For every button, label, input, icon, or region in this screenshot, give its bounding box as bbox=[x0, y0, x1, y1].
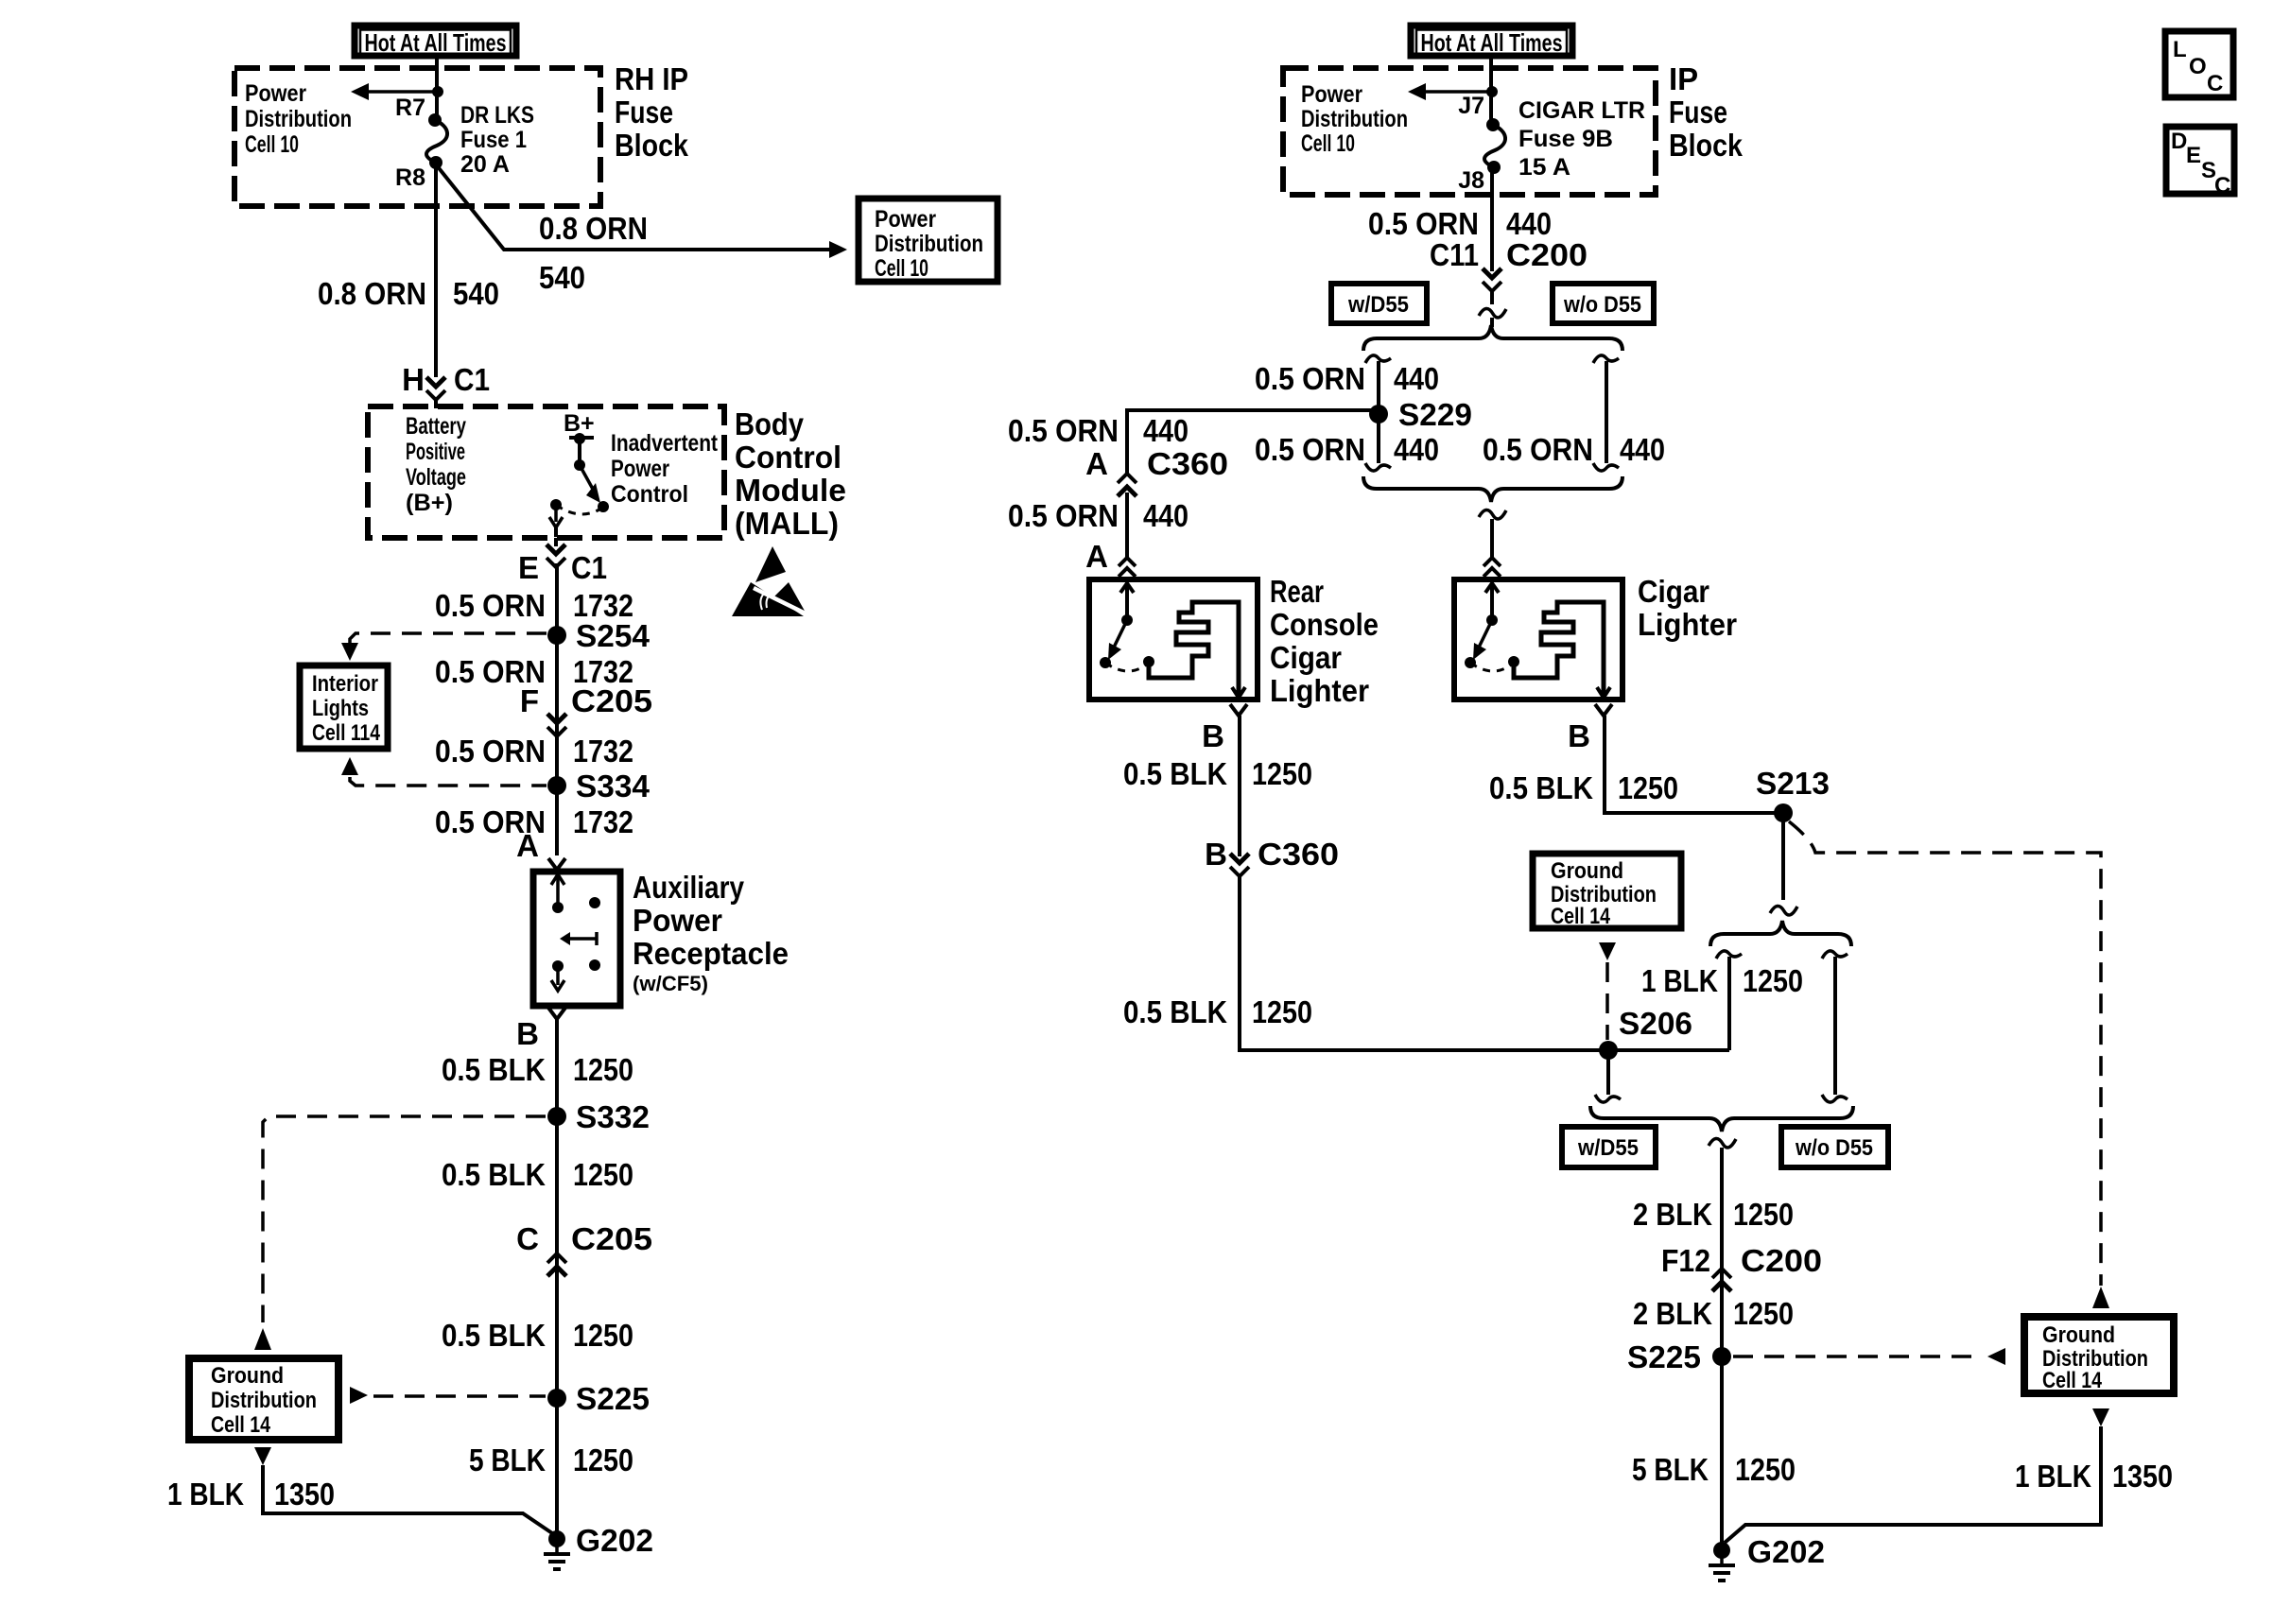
wire: battery feed from Hot At All Times bbox=[435, 58, 439, 118]
svg-text:(MALL): (MALL) bbox=[735, 506, 839, 541]
splice S225 (right) bbox=[1627, 1339, 1731, 1374]
dashed reference S225 to ground distribution (right) bbox=[1733, 1348, 2005, 1365]
svg-text:540: 540 bbox=[453, 276, 499, 311]
wire label 0.5 ORN 440 (lighter feed) bbox=[1008, 498, 1189, 533]
svg-text:1250: 1250 bbox=[1733, 1197, 1794, 1232]
svg-text:C205: C205 bbox=[571, 683, 652, 718]
svg-text:A: A bbox=[516, 828, 539, 863]
splice S225 (left) bbox=[547, 1381, 650, 1416]
wire label 0.5 ORN 440 bbox=[1368, 206, 1552, 241]
connector C205 pin F bbox=[520, 683, 652, 736]
ground G202 (left) bbox=[544, 1523, 653, 1569]
wire label 0.8 ORN 540 (main) bbox=[318, 276, 499, 311]
connector C360 pin B bbox=[1205, 837, 1339, 876]
fuse value label DR LKS Fuse 1 20 A bbox=[460, 102, 534, 178]
svg-text:E: E bbox=[518, 550, 539, 585]
svg-text:G202: G202 bbox=[576, 1523, 653, 1558]
svg-text:0.5 ORN: 0.5 ORN bbox=[1368, 206, 1479, 241]
svg-text:Cell 14: Cell 14 bbox=[211, 1412, 271, 1438]
Body Control Module dashed outline bbox=[368, 406, 724, 538]
dashed reference S213 to ground distribution (right) bbox=[1789, 821, 2109, 1308]
wire 1732 segment 1 bbox=[555, 563, 559, 855]
pin A of rear console lighter bbox=[1085, 539, 1136, 577]
pin J7 bbox=[1458, 93, 1484, 119]
svg-text:1 BLK: 1 BLK bbox=[167, 1477, 244, 1512]
svg-text:1 BLK: 1 BLK bbox=[2015, 1459, 2091, 1494]
svg-text:O: O bbox=[2189, 54, 2207, 79]
RH IP Fuse Block dashed outline bbox=[234, 68, 600, 206]
wire 1 BLK 1350 from ground distribution bbox=[254, 1447, 555, 1535]
arrow to Power Distribution Cell 10 (left) bbox=[351, 83, 437, 100]
pin R7 bbox=[395, 95, 425, 121]
svg-text:F12: F12 bbox=[1661, 1243, 1710, 1278]
svg-text:1732: 1732 bbox=[573, 804, 633, 839]
svg-text:1250: 1250 bbox=[1735, 1452, 1796, 1487]
svg-text:Control: Control bbox=[611, 481, 688, 508]
svg-text:S225: S225 bbox=[576, 1381, 650, 1416]
svg-text:C11: C11 bbox=[1430, 237, 1479, 272]
svg-text:RH IP: RH IP bbox=[615, 61, 688, 96]
legend tab LOC bbox=[2165, 31, 2233, 97]
svg-text:0.5 BLK: 0.5 BLK bbox=[1123, 994, 1227, 1029]
svg-text:0.5 ORN: 0.5 ORN bbox=[435, 734, 546, 769]
wire into BCM bbox=[434, 400, 438, 408]
svg-text:Rear: Rear bbox=[1270, 574, 1324, 609]
option brace (top rejoin) bbox=[1363, 476, 1622, 502]
svg-text:F: F bbox=[520, 683, 539, 718]
svg-text:C1: C1 bbox=[571, 550, 607, 585]
svg-text:Fuse: Fuse bbox=[1669, 95, 1727, 130]
wire below rejoin with break bbox=[1709, 1138, 1736, 1550]
svg-text:Cell 10: Cell 10 bbox=[1301, 130, 1355, 157]
svg-text:B: B bbox=[1568, 718, 1590, 753]
svg-text:0.5 ORN: 0.5 ORN bbox=[1255, 432, 1365, 467]
fuse value label CIGAR LTR Fuse 9B 15 A bbox=[1518, 97, 1645, 181]
pin A of receptacle bbox=[516, 828, 565, 870]
wire below S206 with break bbox=[1595, 1050, 1621, 1102]
svg-text:1350: 1350 bbox=[274, 1477, 335, 1512]
svg-text:440: 440 bbox=[1394, 361, 1439, 396]
connector C200 pin F12 bbox=[1661, 1243, 1822, 1291]
svg-text:0.8 ORN: 0.8 ORN bbox=[539, 211, 648, 246]
svg-text:Power: Power bbox=[1301, 81, 1362, 108]
svg-text:Hot At All Times: Hot At All Times bbox=[1421, 28, 1563, 57]
wire to cigar lighter with break bbox=[1479, 510, 1506, 558]
svg-text:440: 440 bbox=[1143, 413, 1189, 448]
svg-text:Lighter: Lighter bbox=[1270, 673, 1369, 708]
svg-text:S225: S225 bbox=[1627, 1339, 1701, 1374]
svg-text:Hot At All Times: Hot At All Times bbox=[365, 28, 507, 57]
IP Fuse Block dashed outline bbox=[1283, 68, 1656, 195]
switch: inadvertent power control bbox=[550, 439, 609, 514]
svg-text:Distribution: Distribution bbox=[1301, 106, 1408, 132]
pin A of cigar lighter bbox=[1484, 558, 1501, 577]
svg-text:C200: C200 bbox=[1741, 1243, 1822, 1278]
pin B of receptacle bbox=[516, 1008, 565, 1051]
svg-text:1250: 1250 bbox=[1252, 756, 1312, 791]
arrow to Power Distribution Cell 10 (right block) bbox=[1408, 83, 1491, 100]
wire label 0.5 ORN 1732 (3) bbox=[435, 734, 633, 769]
pin B of cigar lighter bbox=[1568, 704, 1612, 753]
svg-text:1250: 1250 bbox=[1743, 963, 1803, 998]
svg-text:Body: Body bbox=[735, 406, 805, 441]
svg-text:Ground: Ground bbox=[1551, 858, 1623, 884]
svg-text:2 BLK: 2 BLK bbox=[1633, 1296, 1712, 1331]
svg-text:w/D55: w/D55 bbox=[1347, 292, 1409, 318]
svg-text:440: 440 bbox=[1620, 432, 1665, 467]
svg-text:0.5 BLK: 0.5 BLK bbox=[1489, 770, 1593, 805]
svg-text:1250: 1250 bbox=[1252, 994, 1312, 1029]
switch output with arrow bbox=[549, 505, 563, 537]
component: Auxiliary Power Receptacle bbox=[533, 872, 620, 1006]
svg-text:A: A bbox=[1085, 446, 1108, 481]
dashed reference S334 to Interior Lights bbox=[341, 757, 547, 786]
svg-text:Battery: Battery bbox=[406, 413, 466, 440]
wire label 2 BLK 1250 (2) bbox=[1633, 1296, 1794, 1331]
svg-text:440: 440 bbox=[1143, 498, 1189, 533]
svg-text:2 BLK: 2 BLK bbox=[1633, 1197, 1712, 1232]
svg-text:S206: S206 bbox=[1619, 1006, 1692, 1041]
svg-text:Control: Control bbox=[735, 440, 842, 475]
svg-text:440: 440 bbox=[1506, 206, 1552, 241]
svg-text:J7: J7 bbox=[1458, 93, 1484, 119]
svg-text:D: D bbox=[2171, 129, 2187, 154]
option tag w/D55 (top) bbox=[1331, 284, 1427, 323]
connector C1 pin E bbox=[518, 538, 607, 585]
fuse DR LKS Fuse 1 20 A bbox=[426, 113, 447, 169]
wire 1250 from rear lighter bbox=[1238, 716, 1241, 856]
svg-text:0.5 ORN: 0.5 ORN bbox=[1255, 361, 1365, 396]
svg-text:Module: Module bbox=[735, 473, 846, 508]
svg-text:Fuse: Fuse bbox=[615, 95, 673, 130]
option tag w/D55 (bottom) bbox=[1562, 1127, 1656, 1167]
svg-text:Cell 14: Cell 14 bbox=[1551, 904, 1611, 929]
wire 1250 from cigar lighter to S213 bbox=[1605, 716, 1783, 813]
svg-text:CIGAR LTR: CIGAR LTR bbox=[1518, 97, 1645, 124]
wire circuit 440 below fuse block bbox=[1490, 167, 1494, 271]
branch wire (w/o D55 path) bbox=[1822, 951, 1848, 1102]
svg-text:Block: Block bbox=[1669, 128, 1744, 163]
option branch w/o D55 wire 440 bbox=[1593, 355, 1619, 471]
svg-text:0.5 ORN: 0.5 ORN bbox=[1008, 498, 1119, 533]
wire: 0.8 ORN 540 branch to power distribution bbox=[436, 164, 847, 258]
svg-text:0.5 ORN: 0.5 ORN bbox=[1483, 432, 1593, 467]
svg-text:1250: 1250 bbox=[573, 1443, 633, 1477]
svg-text:Inadvertent: Inadvertent bbox=[611, 430, 719, 457]
option tag w/o D55 (top) bbox=[1553, 284, 1654, 323]
svg-text:0.5 BLK: 0.5 BLK bbox=[442, 1052, 546, 1087]
junction at R7 feed bbox=[432, 86, 443, 97]
svg-text:C360: C360 bbox=[1147, 446, 1228, 481]
component: Rear Console Cigar Lighter bbox=[1089, 579, 1258, 700]
wire 1250 down to S206 bbox=[1240, 876, 1729, 1050]
svg-text:Cell 14: Cell 14 bbox=[2042, 1368, 2103, 1393]
pin B of rear console lighter bbox=[1202, 704, 1247, 753]
option brace (top split) bbox=[1363, 325, 1622, 351]
RH IP Fuse Block title bbox=[615, 61, 689, 163]
svg-text:S334: S334 bbox=[576, 769, 651, 803]
svg-text:1250: 1250 bbox=[573, 1052, 633, 1087]
svg-text:0.8 ORN: 0.8 ORN bbox=[318, 276, 426, 311]
svg-text:Power: Power bbox=[875, 206, 936, 233]
svg-text:Lights: Lights bbox=[312, 696, 369, 721]
wire 1250 from receptacle bbox=[555, 1019, 559, 1539]
svg-text:C: C bbox=[2207, 71, 2223, 96]
node B+ bbox=[564, 410, 595, 444]
wire label 440 (w/D55 branch) bbox=[1255, 361, 1439, 396]
svg-text:Power: Power bbox=[245, 80, 306, 107]
svg-text:DR LKS: DR LKS bbox=[460, 102, 534, 129]
wire label 0.5 ORN 1732 (2) bbox=[435, 654, 633, 689]
option tag w/o D55 (bottom) bbox=[1781, 1127, 1888, 1167]
ESD static sensitive symbol bbox=[732, 546, 811, 616]
svg-text:Cell 114: Cell 114 bbox=[312, 720, 381, 746]
dashed reference S254 to Interior Lights bbox=[341, 633, 547, 661]
svg-text:B: B bbox=[516, 1016, 539, 1051]
fuse CIGAR LTR Fuse 9B 15 A bbox=[1484, 118, 1505, 174]
svg-text:C: C bbox=[2214, 173, 2230, 199]
svg-text:20 A: 20 A bbox=[460, 151, 510, 178]
receptacle title bbox=[633, 870, 789, 995]
svg-text:Lighter: Lighter bbox=[1638, 607, 1737, 642]
svg-text:C1: C1 bbox=[454, 362, 490, 397]
wire label 0.5 ORN 440 (to C360) bbox=[1008, 413, 1189, 448]
svg-text:(w/CF5): (w/CF5) bbox=[633, 972, 708, 995]
svg-text:Distribution: Distribution bbox=[211, 1388, 317, 1413]
wire label 0.5 BLK 1250 (2) bbox=[442, 1157, 633, 1192]
connector C1 pin H bbox=[402, 362, 490, 400]
svg-text:Cigar: Cigar bbox=[1270, 640, 1342, 675]
option brace (ground split) bbox=[1710, 921, 1851, 946]
wire label 0.5 ORN 440 (below S229) bbox=[1255, 432, 1439, 467]
option branch w/D55 wire 440 bbox=[1365, 355, 1391, 471]
svg-text:15 A: 15 A bbox=[1518, 154, 1570, 181]
wire label 5 BLK 1250 (right) bbox=[1632, 1452, 1796, 1487]
junction at J7 feed bbox=[1486, 86, 1498, 97]
svg-text:B: B bbox=[1202, 718, 1224, 753]
dashed reference S332 to Ground Distribution bbox=[254, 1116, 546, 1350]
svg-text:Distribution: Distribution bbox=[875, 231, 983, 257]
svg-text:Voltage: Voltage bbox=[406, 464, 466, 491]
svg-text:H: H bbox=[402, 362, 425, 397]
svg-text:Receptacle: Receptacle bbox=[633, 936, 789, 971]
wire label 0.5 ORN 1732 (1) bbox=[435, 588, 633, 623]
svg-text:Fuse 9B: Fuse 9B bbox=[1518, 126, 1613, 152]
svg-text:Power: Power bbox=[633, 903, 722, 938]
cigar lighter title bbox=[1638, 574, 1737, 642]
svg-text:S254: S254 bbox=[576, 618, 651, 653]
pin J8 bbox=[1458, 167, 1484, 194]
wire: circuit 540 to BCM bbox=[434, 163, 438, 377]
svg-text:1732: 1732 bbox=[573, 734, 633, 769]
svg-text:Cell 10: Cell 10 bbox=[875, 255, 928, 282]
component: Cigar Lighter bbox=[1454, 579, 1622, 700]
wire label 1 BLK 1350 bbox=[167, 1477, 335, 1512]
legend tab DESC bbox=[2166, 127, 2234, 199]
connector C360 pin A bbox=[1085, 446, 1228, 496]
svg-text:w/D55: w/D55 bbox=[1577, 1135, 1639, 1161]
svg-text:B: B bbox=[1205, 837, 1227, 872]
pin R8 bbox=[395, 164, 425, 191]
svg-text:Auxiliary: Auxiliary bbox=[633, 870, 745, 905]
dashed reference ground distribution to S206 bbox=[1599, 942, 1616, 1040]
svg-text:w/o D55: w/o D55 bbox=[1563, 292, 1641, 318]
svg-text:Interior: Interior bbox=[312, 671, 378, 697]
wire: battery feed (right) bbox=[1489, 58, 1493, 123]
rear console lighter title bbox=[1270, 574, 1379, 708]
wire label 2 BLK 1250 (1) bbox=[1633, 1197, 1794, 1232]
svg-text:1250: 1250 bbox=[1618, 770, 1678, 805]
svg-text:Ground: Ground bbox=[2042, 1322, 2115, 1348]
wire label 0.5 ORN 1732 (4) bbox=[435, 804, 633, 839]
svg-text:Power: Power bbox=[611, 456, 669, 482]
splice S206 bbox=[1599, 1006, 1692, 1060]
svg-text:Positive: Positive bbox=[406, 439, 465, 465]
node: Hot At All Times (left) bbox=[355, 26, 516, 57]
node: Interior Lights Cell 114 box bbox=[300, 665, 388, 749]
svg-text:1250: 1250 bbox=[573, 1318, 633, 1353]
svg-text:S229: S229 bbox=[1398, 397, 1472, 432]
branch wire 1 BLK 1250 (w/D55 path) bbox=[1716, 951, 1742, 1050]
svg-text:S213: S213 bbox=[1756, 766, 1830, 801]
svg-text:0.5 BLK: 0.5 BLK bbox=[1123, 756, 1227, 791]
svg-text:G202: G202 bbox=[1747, 1534, 1825, 1569]
svg-text:B+: B+ bbox=[564, 410, 595, 437]
svg-text:5 BLK: 5 BLK bbox=[469, 1443, 546, 1477]
svg-text:1250: 1250 bbox=[1733, 1296, 1794, 1331]
node: Ground Distribution Cell 14 (left) bbox=[189, 1358, 338, 1440]
splice S213 bbox=[1756, 766, 1830, 822]
node: Ground Distribution Cell 14 (right) bbox=[2024, 1317, 2174, 1393]
svg-text:J8: J8 bbox=[1458, 167, 1484, 194]
dashed reference Ground Distribution to S225 bbox=[350, 1387, 546, 1404]
splice S332 bbox=[547, 1099, 650, 1134]
wire label 0.5 ORN 440 (w/o D55 branch) bbox=[1483, 432, 1665, 467]
svg-text:C: C bbox=[516, 1221, 539, 1256]
break in wire (options below) bbox=[1479, 291, 1506, 327]
svg-text:S332: S332 bbox=[576, 1099, 650, 1134]
svg-text:1 BLK: 1 BLK bbox=[1641, 963, 1718, 998]
svg-text:R7: R7 bbox=[395, 95, 425, 121]
svg-text:IP: IP bbox=[1669, 61, 1698, 96]
svg-text:Ground: Ground bbox=[211, 1363, 284, 1389]
svg-text:E: E bbox=[2186, 143, 2201, 168]
wire from S229 to rear console lighter bbox=[1127, 410, 1371, 475]
splice S334 bbox=[547, 769, 651, 803]
svg-text:0.5 BLK: 0.5 BLK bbox=[442, 1157, 546, 1192]
svg-text:Cell 10: Cell 10 bbox=[245, 131, 299, 158]
label: Inadvertent Power Control bbox=[611, 430, 719, 508]
node: Ground Distribution Cell 14 (middle) bbox=[1533, 854, 1681, 929]
wire label 0.8 ORN 540 (branch) bbox=[539, 211, 648, 295]
wire 1 BLK 1350 (right) to ground bbox=[1725, 1408, 2109, 1543]
splice S229 bbox=[1369, 397, 1472, 432]
svg-text:Block: Block bbox=[615, 128, 689, 163]
svg-text:0.5 ORN: 0.5 ORN bbox=[1008, 413, 1119, 448]
connector C200 pin C11 bbox=[1430, 237, 1588, 291]
svg-text:w/o D55: w/o D55 bbox=[1795, 1135, 1873, 1161]
svg-text:Console: Console bbox=[1270, 607, 1379, 642]
wire label 0.5 BLK 1250 (3) bbox=[442, 1318, 633, 1353]
svg-text:540: 540 bbox=[539, 260, 585, 295]
svg-text:1250: 1250 bbox=[573, 1157, 633, 1192]
wire label 0.5 BLK 1250 (rear lighter) bbox=[1123, 756, 1312, 791]
IP Fuse Block title bbox=[1669, 61, 1744, 163]
svg-text:C200: C200 bbox=[1506, 237, 1588, 272]
wire from S213 down with break bbox=[1770, 813, 1797, 915]
svg-text:(B+): (B+) bbox=[406, 490, 453, 516]
label: Power Distribution Cell 10 (in IP fuse block) bbox=[1301, 81, 1408, 157]
wire 440 to lighter pin A bbox=[1125, 492, 1129, 558]
svg-text:0.5 ORN: 0.5 ORN bbox=[435, 588, 546, 623]
svg-text:5 BLK: 5 BLK bbox=[1632, 1452, 1709, 1487]
wire label 1 BLK 1250 bbox=[1641, 963, 1803, 998]
wire label 0.5 BLK 1250 (to S206) bbox=[1123, 994, 1312, 1029]
wire label 5 BLK 1250 bbox=[469, 1443, 633, 1477]
BCM title Body Control Module (MALL) bbox=[735, 406, 846, 541]
wire label 0.5 BLK 1250 (cigar lighter) bbox=[1489, 770, 1678, 805]
ground G202 (right) bbox=[1709, 1534, 1825, 1581]
wire label 1 BLK 1350 (right) bbox=[2015, 1459, 2173, 1494]
option brace (ground rejoin) bbox=[1590, 1106, 1853, 1132]
svg-text:Fuse 1: Fuse 1 bbox=[460, 127, 527, 153]
connector C205 pin C bbox=[516, 1221, 652, 1276]
svg-text:Distribution: Distribution bbox=[245, 106, 352, 132]
label: Power Distribution Cell 10 (in RH IP fuse block) bbox=[245, 80, 352, 158]
splice S254 bbox=[547, 618, 651, 653]
svg-text:1350: 1350 bbox=[2112, 1459, 2173, 1494]
svg-text:C205: C205 bbox=[571, 1221, 652, 1256]
node: Power Distribution Cell 10 (right box) bbox=[859, 199, 998, 282]
svg-text:440: 440 bbox=[1394, 432, 1439, 467]
svg-text:R8: R8 bbox=[395, 164, 425, 191]
wire label 0.5 BLK 1250 (1) bbox=[442, 1052, 633, 1087]
label: Battery Positive Voltage (B+) bbox=[406, 413, 466, 516]
svg-text:Cigar: Cigar bbox=[1638, 574, 1709, 609]
svg-text:A: A bbox=[1085, 539, 1108, 574]
svg-text:0.5 BLK: 0.5 BLK bbox=[442, 1318, 546, 1353]
svg-text:C360: C360 bbox=[1258, 837, 1339, 872]
node: Hot At All Times (right) bbox=[1411, 26, 1572, 57]
svg-text:L: L bbox=[2173, 37, 2187, 62]
